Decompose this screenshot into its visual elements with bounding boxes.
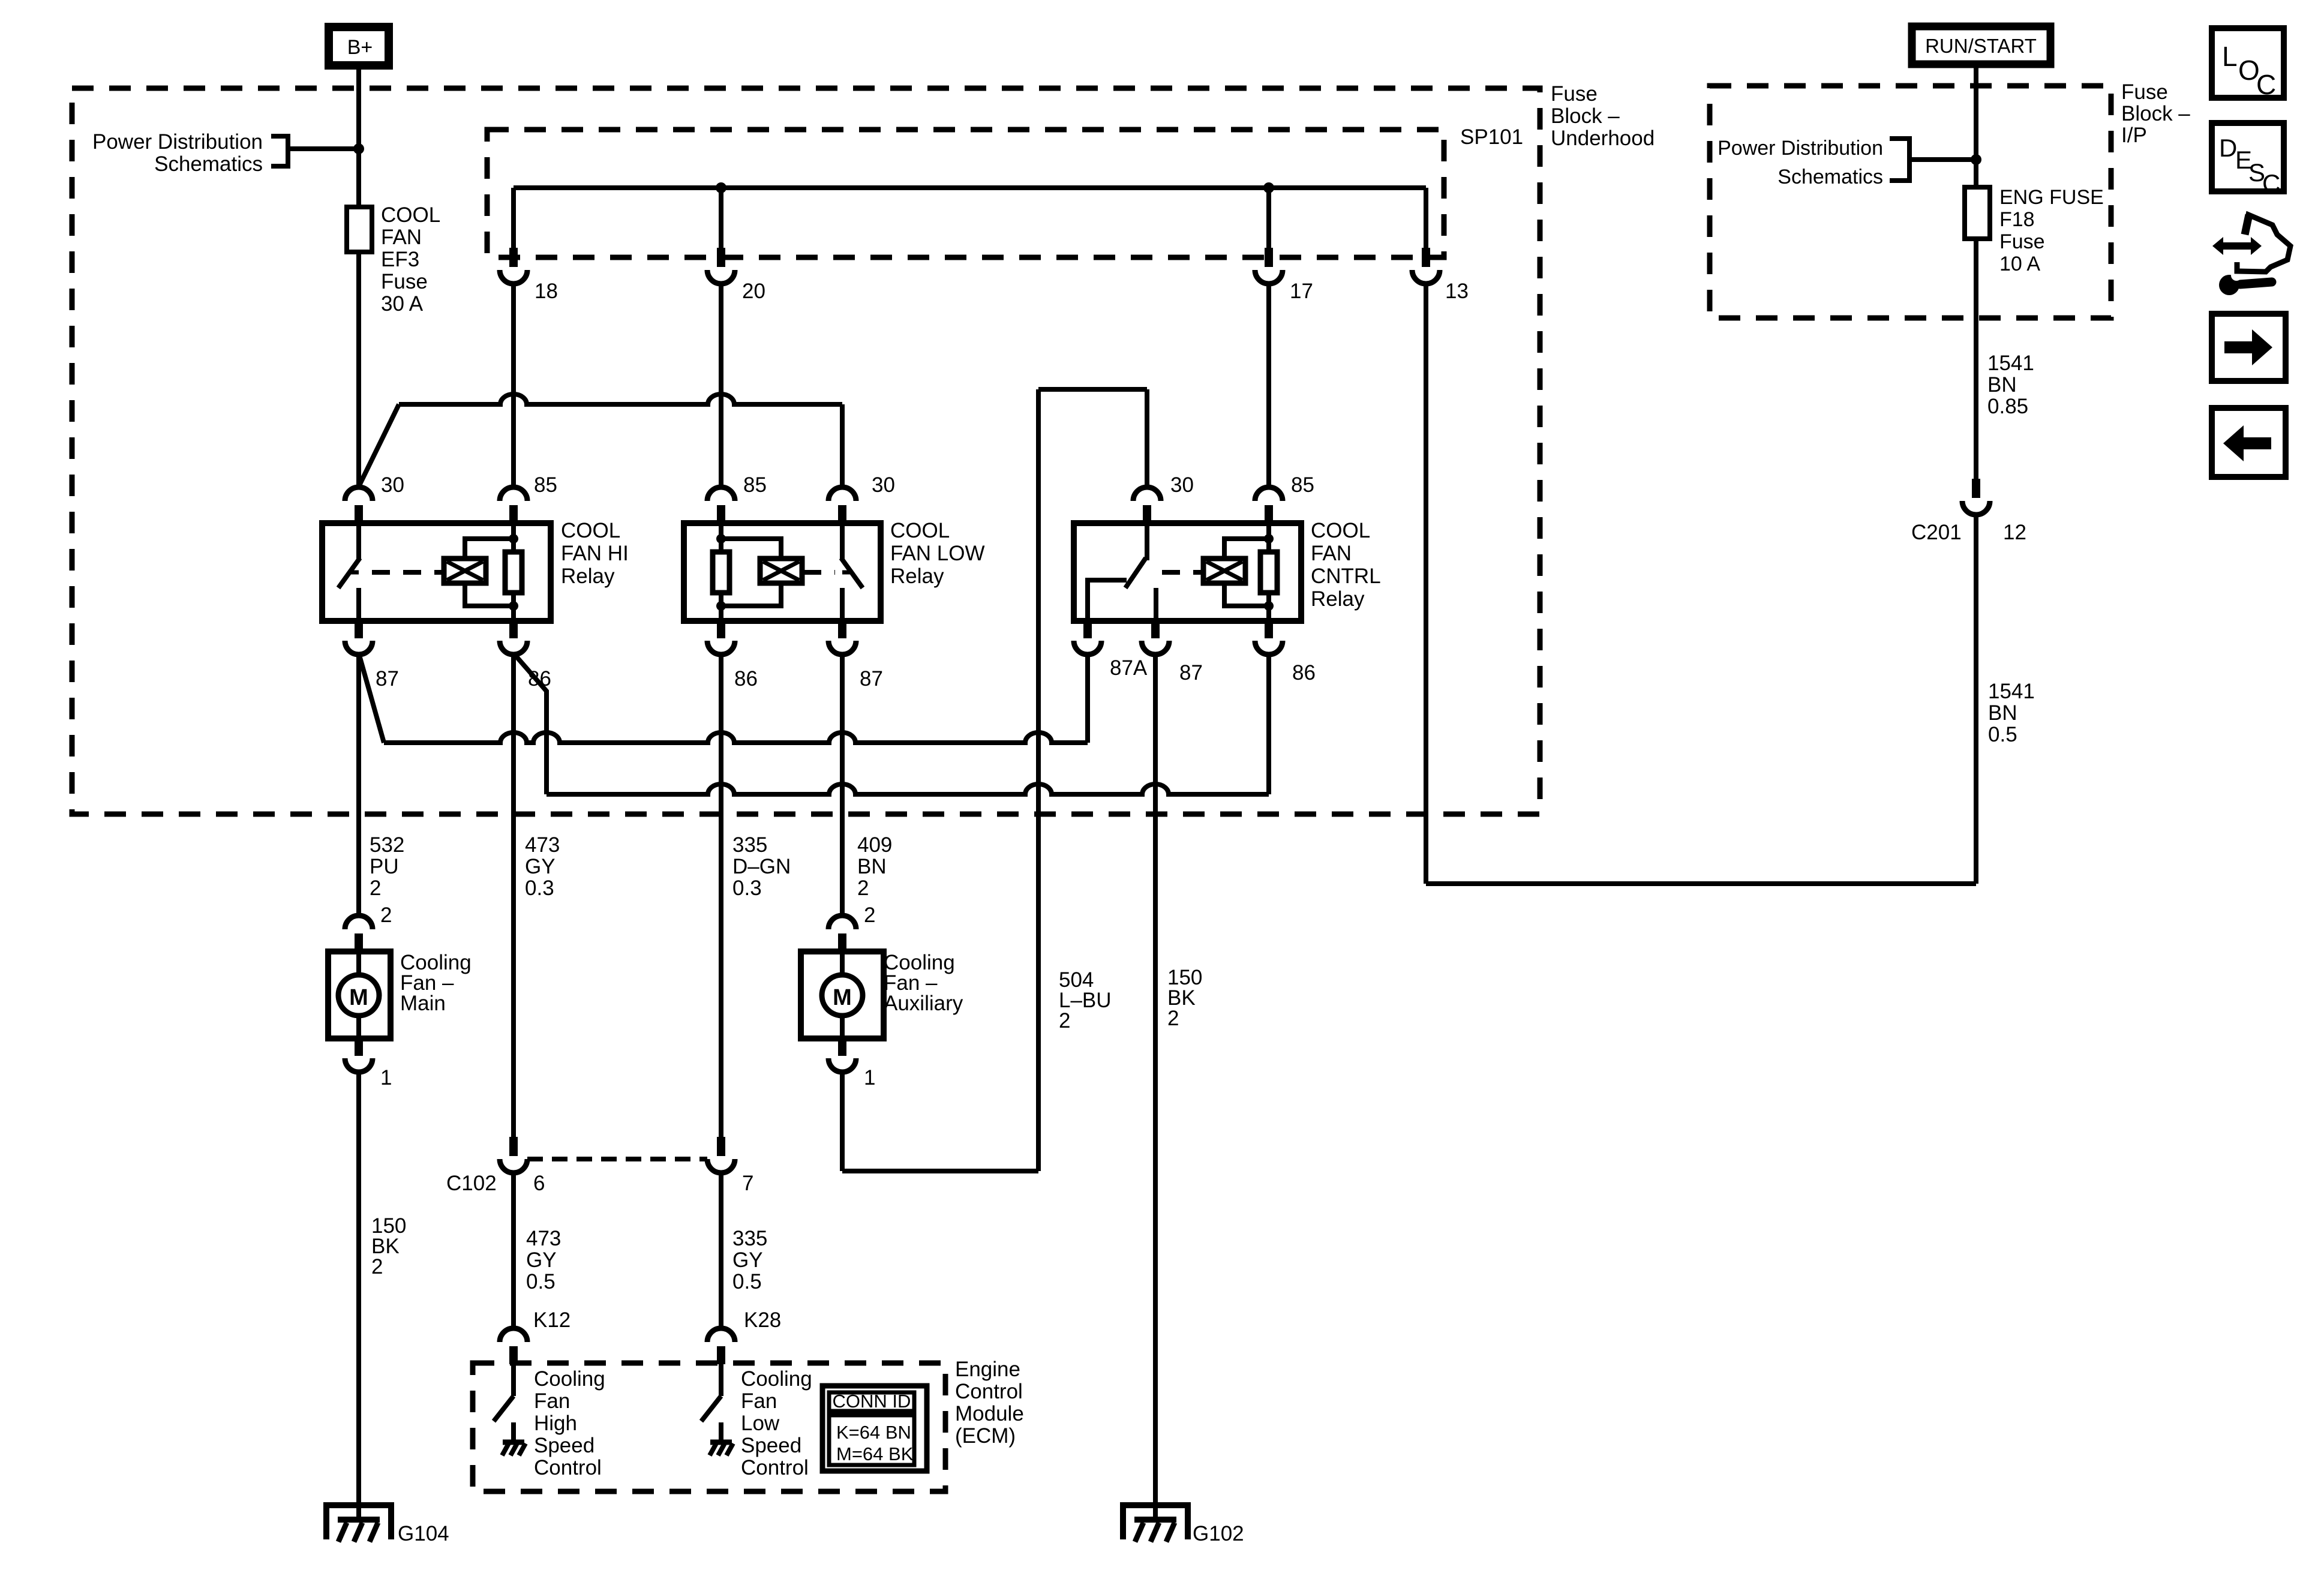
node bus-17 — [1263, 182, 1274, 193]
svg-text:6: 6 — [533, 1172, 545, 1195]
svg-text:30: 30 — [381, 473, 404, 497]
connector LOW pin 85 — [707, 487, 735, 501]
node CNTRL coil bottom — [1264, 601, 1274, 611]
svg-text:Fan: Fan — [534, 1389, 570, 1413]
svg-text:ENG FUSE: ENG FUSE — [1999, 186, 2104, 209]
svg-text:G102: G102 — [1193, 1522, 1244, 1545]
wire 30-feed diagonal from HI relay pin 30 — [359, 404, 399, 487]
motor Cooling Fan Main circle M — [338, 975, 379, 1016]
wire 18 upper segment — [511, 188, 516, 248]
svg-text:FAN: FAN — [381, 226, 422, 249]
LOW switch top contact — [840, 523, 845, 560]
label circuit 473 GY 0.3 — [511, 653, 516, 1137]
motor Cooling Fan Auxiliary circle M — [822, 975, 863, 1016]
svg-text:20: 20 — [742, 280, 765, 303]
high speed switch lead — [511, 1364, 516, 1396]
svg-text:High: High — [534, 1412, 577, 1435]
svg-text:2: 2 — [1167, 1007, 1179, 1030]
svg-text:409: 409 — [857, 833, 892, 857]
wire ignition feed horizontal — [1426, 881, 1976, 886]
wire 13 down to ignition feed — [1424, 284, 1428, 884]
icon DESC box — [2212, 123, 2284, 191]
svg-text:473: 473 — [526, 1227, 561, 1250]
high speed switch blade — [494, 1396, 514, 1421]
svg-text:0.3: 0.3 — [525, 876, 554, 900]
svg-text:Fuse: Fuse — [1999, 230, 2045, 253]
fuse F18 ENG FUSE 10A — [1965, 187, 1990, 239]
svg-text:Control: Control — [955, 1380, 1023, 1403]
C102 dashed link — [527, 1157, 707, 1161]
LOW relay coil — [760, 559, 802, 583]
node bus-20 — [716, 182, 726, 193]
connector C102 pin 6 — [509, 1137, 518, 1156]
svg-text:335: 335 — [732, 833, 767, 857]
connector HI pin 30 — [345, 487, 373, 501]
connector SP101-20 — [717, 248, 725, 267]
HI relay resistor — [505, 552, 522, 593]
connector aux fan pin 1 — [838, 1038, 846, 1056]
HI pin85 internal wire — [511, 523, 516, 621]
svg-text:FAN HI: FAN HI — [561, 542, 629, 565]
svg-text:F18: F18 — [1999, 208, 2035, 231]
svg-text:30 A: 30 A — [381, 292, 424, 316]
connector SP101-13 — [1422, 248, 1430, 267]
HI switch top contact — [356, 523, 361, 560]
svg-text:C201: C201 — [1911, 521, 1962, 544]
motor Cooling Fan Auxiliary box — [801, 951, 884, 1038]
svg-text:0.5: 0.5 — [732, 1270, 762, 1293]
svg-text:COOL: COOL — [381, 203, 440, 227]
svg-text:K=64 BN: K=64 BN — [836, 1422, 911, 1443]
connector CNTRL pin 30 — [1133, 487, 1161, 501]
lower bus 86 to 86 — [547, 784, 1269, 794]
svg-text:85: 85 — [1291, 473, 1314, 497]
CNTRL switch top contact — [1145, 523, 1149, 560]
svg-text:M: M — [349, 985, 368, 1010]
wire CNTRL-87A drop to bus — [1085, 653, 1090, 743]
CNTRL pin85 internal wire — [1266, 523, 1271, 621]
svg-text:0.5: 0.5 — [1988, 723, 2017, 746]
svg-text:Fuse: Fuse — [1551, 82, 1598, 106]
svg-text:1541: 1541 — [1988, 680, 2035, 703]
upper bus 87 to 87A — [384, 733, 1088, 743]
svg-text:D: D — [2219, 134, 2237, 162]
svg-text:G104: G104 — [398, 1522, 449, 1545]
wire B+ feed down to relay 30 — [356, 70, 361, 487]
relay COOL FAN LOW box — [684, 523, 881, 621]
HI coil link dashes — [372, 570, 443, 575]
fuse block underhood dashed box — [72, 88, 1540, 814]
svg-text:1: 1 — [380, 1066, 392, 1089]
svg-text:Power Distribution: Power Distribution — [92, 130, 263, 154]
CNTRL 87A link — [1088, 580, 1127, 621]
wire 17 to relay pin 85 — [1266, 284, 1271, 487]
svg-text:Module: Module — [955, 1402, 1024, 1425]
svg-text:K12: K12 — [533, 1308, 571, 1332]
wire 335 GY 0.5 — [719, 1173, 723, 1328]
connector LOW pin 87 — [838, 621, 846, 638]
relay COOL FAN HI box — [322, 523, 551, 621]
svg-text:BN: BN — [857, 855, 887, 878]
ground G104 — [326, 1505, 391, 1539]
svg-text:87: 87 — [860, 667, 883, 691]
svg-text:2: 2 — [864, 903, 875, 927]
CNTRL switch blade — [1125, 558, 1146, 588]
SP101 bus wire — [514, 185, 1426, 190]
svg-text:Underhood: Underhood — [1551, 127, 1655, 150]
svg-text:COOL: COOL — [890, 519, 950, 542]
bracket power distribution left — [271, 136, 288, 166]
svg-text:0.85: 0.85 — [1987, 395, 2028, 418]
LOW switch blade — [841, 558, 863, 588]
icon forward arrow box — [2212, 314, 2286, 381]
HI relay coil — [444, 559, 486, 583]
svg-text:I/P: I/P — [2121, 124, 2147, 147]
low speed switch ground — [719, 1422, 723, 1442]
low speed switch lead — [719, 1364, 723, 1396]
node LOW coil top — [716, 534, 726, 544]
svg-text:C: C — [2262, 169, 2280, 197]
connector CNTRL pin 85 — [1255, 487, 1283, 501]
CNTRL coil bottom lead — [1224, 583, 1269, 606]
connector HI pin 87 — [355, 621, 363, 638]
svg-text:13: 13 — [1445, 280, 1469, 303]
svg-text:1541: 1541 — [1987, 352, 2034, 375]
svg-text:532: 532 — [370, 833, 404, 857]
main motor internal leads — [356, 951, 361, 976]
CNTRL relay coil — [1203, 559, 1245, 583]
svg-text:2: 2 — [857, 876, 869, 900]
svg-text:2: 2 — [380, 903, 392, 927]
svg-text:Schematics: Schematics — [154, 152, 263, 176]
svg-text:C: C — [2256, 69, 2276, 100]
svg-text:Speed: Speed — [534, 1434, 594, 1457]
svg-text:Auxiliary: Auxiliary — [884, 992, 963, 1015]
node power distribution tap — [353, 143, 364, 154]
svg-text:Control: Control — [741, 1456, 809, 1479]
svg-text:Fuse: Fuse — [381, 270, 428, 293]
connector main fan pin 2 — [345, 915, 373, 929]
node power distribution tap right — [1971, 154, 1981, 165]
connector LOW pin 86 — [717, 621, 725, 638]
HI coil bottom lead — [465, 583, 514, 606]
svg-text:Block –: Block – — [1551, 104, 1620, 128]
LOW switch bottom contact — [840, 588, 845, 621]
bracket power distribution right — [1890, 139, 1909, 181]
svg-text:Cooling: Cooling — [741, 1367, 812, 1391]
wire main fan to ground — [356, 1072, 361, 1520]
LOW coil bottom lead — [721, 583, 781, 606]
svg-text:85: 85 — [534, 473, 557, 497]
icon back arrow box — [2212, 408, 2286, 477]
svg-text:PU: PU — [370, 855, 399, 878]
svg-text:C102: C102 — [446, 1172, 497, 1195]
wire HI-86 diagonal to lower bus — [514, 653, 547, 794]
wire 532 PU from HI pin 87 — [356, 653, 361, 915]
svg-text:M: M — [833, 985, 852, 1010]
connector C201 pin 12 — [1972, 479, 1980, 498]
fuse EF3 COOL FAN 30A — [347, 207, 372, 252]
svg-text:K28: K28 — [744, 1308, 781, 1332]
connector C102 pin 7 — [717, 1137, 725, 1156]
svg-text:B+: B+ — [347, 36, 373, 59]
svg-text:Speed: Speed — [741, 1434, 801, 1457]
HI switch tick — [350, 571, 359, 575]
svg-text:COOL: COOL — [561, 519, 620, 542]
wire 13 upper segment — [1424, 188, 1428, 248]
svg-text:BN: BN — [1988, 701, 2017, 725]
CNTRL switch bottom contact — [1154, 588, 1158, 621]
svg-text:Block –: Block – — [2121, 102, 2190, 125]
node CNTRL coil top — [1264, 534, 1274, 544]
svg-text:D–GN: D–GN — [732, 855, 791, 878]
svg-text:GY: GY — [526, 1248, 557, 1272]
LOW pin85 internal wire — [719, 523, 723, 621]
connector HI pin 86 — [509, 621, 518, 638]
high speed switch ground — [511, 1422, 516, 1442]
svg-text:BN: BN — [1987, 373, 2017, 397]
wire CNTRL pin30 feed up — [1145, 389, 1149, 487]
wire 30-feed drop to LOW relay pin 30 — [840, 404, 845, 487]
connector K12 — [500, 1328, 527, 1342]
svg-text:87: 87 — [1179, 661, 1203, 685]
svg-text:CNTRL: CNTRL — [1311, 565, 1381, 588]
wire CNTRL feed horizontal — [1038, 387, 1147, 392]
svg-text:COOL: COOL — [1311, 519, 1370, 542]
svg-text:7: 7 — [742, 1172, 753, 1195]
wire 409 from LOW pin 87 — [840, 653, 845, 915]
wire 1541 BN 0.5 down — [1974, 515, 1978, 884]
wire aux fan pin1 down — [840, 1072, 845, 1171]
connector aux fan pin 2 — [828, 915, 856, 929]
splice pack SP101 dashed box — [487, 130, 1444, 257]
wire 20 to relay pin 85 — [719, 284, 723, 487]
svg-text:Schematics: Schematics — [1777, 166, 1883, 188]
svg-text:Cooling: Cooling — [534, 1367, 605, 1391]
svg-text:Engine: Engine — [955, 1358, 1020, 1381]
svg-text:Relay: Relay — [561, 565, 615, 588]
svg-text:86: 86 — [1292, 661, 1316, 685]
connector CNTRL pin 87A — [1083, 621, 1092, 638]
wire 335 from LOW pin 86 — [719, 653, 723, 1137]
icon LOC box — [2212, 28, 2284, 98]
CNTRL coil link dashes — [1162, 570, 1202, 575]
wire 20 upper segment — [719, 188, 723, 248]
wire aux fan to 504 corner — [842, 1169, 1038, 1173]
wire 473 GY 0.5 — [511, 1173, 516, 1328]
wire 17 upper segment — [1266, 188, 1271, 248]
svg-text:335: 335 — [732, 1227, 767, 1250]
wire 18 to relay pin 85 — [511, 284, 516, 487]
connector LOW pin 30 — [828, 487, 856, 501]
svg-text:87: 87 — [376, 667, 399, 691]
svg-text:0.3: 0.3 — [732, 876, 762, 900]
svg-text:Relay: Relay — [1311, 587, 1365, 611]
fuse block IP dashed box — [1710, 86, 2111, 318]
svg-text:30: 30 — [1170, 473, 1194, 497]
LOW relay resistor — [713, 552, 729, 593]
power symbol RUN/START — [1912, 26, 2050, 64]
connector main fan pin 1 — [355, 1038, 363, 1056]
svg-text:87A: 87A — [1110, 656, 1148, 680]
svg-text:473: 473 — [525, 833, 560, 857]
aux motor internal leads — [840, 951, 845, 976]
svg-text:Control: Control — [534, 1456, 602, 1479]
wire 150 BK from CNTRL pin 87 to G102 — [1153, 653, 1158, 1520]
svg-text:2: 2 — [370, 876, 381, 900]
HI coil top lead — [465, 539, 514, 559]
svg-text:12: 12 — [2003, 521, 2026, 544]
svg-text:CONN ID: CONN ID — [833, 1391, 911, 1412]
connector HI pin 85 — [500, 487, 527, 501]
svg-text:18: 18 — [535, 280, 558, 303]
node HI coil bottom — [509, 601, 518, 611]
LOW coil top lead — [721, 539, 781, 559]
svg-text:L: L — [2222, 41, 2238, 72]
CONN ID table — [822, 1386, 927, 1471]
connector CNTRL pin 87 — [1151, 621, 1160, 638]
svg-text:Fan: Fan — [741, 1389, 777, 1413]
LOW switch tick — [842, 571, 851, 575]
svg-text:1: 1 — [864, 1066, 875, 1089]
connector SP101-18 — [509, 248, 518, 267]
svg-text:RUN/START: RUN/START — [1925, 35, 2037, 57]
ground G102 — [1123, 1505, 1188, 1539]
svg-text:GY: GY — [732, 1248, 763, 1272]
wire RUN/START feed — [1974, 64, 1978, 479]
motor Cooling Fan Main box — [328, 951, 391, 1038]
svg-text:Main: Main — [400, 992, 446, 1015]
svg-text:2: 2 — [371, 1255, 383, 1278]
svg-text:0.5: 0.5 — [526, 1270, 556, 1293]
svg-text:FAN LOW: FAN LOW — [890, 542, 985, 565]
svg-text:Low: Low — [741, 1412, 780, 1435]
HI switch bottom contact — [356, 588, 361, 621]
power symbol B+ — [329, 27, 389, 65]
svg-text:Power Distribution: Power Distribution — [1718, 137, 1883, 160]
svg-text:GY: GY — [525, 855, 556, 878]
connector K28 — [707, 1328, 735, 1342]
wire CNTRL-86 drop to lower bus — [1266, 653, 1271, 794]
relay COOL FAN CNTRL box — [1074, 523, 1301, 621]
ECM dashed box — [473, 1363, 945, 1491]
wire 30-feed horizontal with hops — [399, 394, 842, 404]
low speed switch blade — [701, 1396, 721, 1421]
connector CNTRL pin 86 — [1265, 621, 1273, 638]
svg-text:Fuse: Fuse — [2121, 80, 2168, 104]
HI switch blade — [338, 558, 360, 588]
wire HI-87 diagonal to bus — [359, 653, 384, 743]
svg-text:30: 30 — [872, 473, 895, 497]
LOW coil link dashes — [803, 570, 835, 575]
node HI coil top — [509, 534, 518, 544]
CNTRL coil top lead — [1224, 539, 1269, 559]
svg-text:10 A: 10 A — [1999, 253, 2040, 275]
icon wrench — [2219, 275, 2239, 295]
icon vehicle outline with arrow — [2237, 215, 2290, 272]
svg-text:(ECM): (ECM) — [955, 1424, 1016, 1448]
svg-text:M=64 BK: M=64 BK — [836, 1443, 914, 1464]
svg-text:EF3: EF3 — [381, 248, 419, 271]
svg-text:17: 17 — [1290, 280, 1313, 303]
node LOW coil bottom — [716, 601, 726, 611]
connector SP101-17 — [1265, 248, 1273, 267]
svg-text:FAN: FAN — [1311, 542, 1352, 565]
CNTRL relay resistor — [1260, 552, 1277, 593]
svg-text:86: 86 — [734, 667, 758, 691]
wire 504 feed vertical — [1036, 389, 1041, 1171]
svg-text:SP101: SP101 — [1460, 125, 1523, 149]
svg-text:2: 2 — [1059, 1009, 1070, 1032]
svg-text:85: 85 — [743, 473, 767, 497]
svg-text:Relay: Relay — [890, 565, 944, 588]
